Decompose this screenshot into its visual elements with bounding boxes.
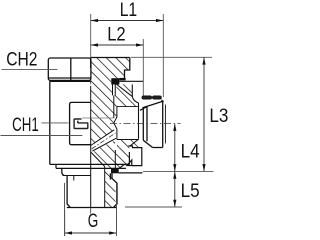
channel axis centerline bbox=[92, 133, 116, 149]
svg-text:L4: L4 bbox=[181, 142, 200, 163]
tube slot walls bbox=[113, 85, 116, 119]
svg-text:CH2: CH2 bbox=[6, 50, 37, 71]
nut CH2 bbox=[48, 58, 91, 80]
svg-text:L5: L5 bbox=[181, 181, 200, 202]
swivel nut side port bbox=[140, 101, 165, 148]
hatched body section upper block bbox=[91, 58, 130, 100]
white cavity of side port bbox=[114, 107, 138, 140]
extension line L2 right bbox=[142, 39, 144, 96]
svg-text:G: G bbox=[88, 211, 99, 232]
extension line top for L3 bbox=[131, 56, 212, 58]
svg-text:L1: L1 bbox=[120, 0, 138, 21]
bottom seal black bbox=[111, 168, 119, 173]
dimension L5 bbox=[173, 171, 176, 207]
svg-text:L2: L2 bbox=[107, 25, 126, 46]
side port cavity outline bbox=[114, 103, 139, 146]
washer under hex bbox=[56, 164, 126, 168]
black detail right of seal bbox=[119, 78, 125, 81]
svg-text:L3: L3 bbox=[209, 106, 228, 127]
brand mark spiral symbol bbox=[74, 119, 88, 129]
thread thin lines bbox=[65, 183, 117, 236]
washer inner edge line bbox=[114, 150, 116, 168]
G extension lines bbox=[64, 210, 66, 236]
hatched stud walls bbox=[105, 168, 116, 207]
dimension L1 bbox=[91, 19, 164, 22]
tube slot white bbox=[113, 85, 115, 96]
faint internal line bbox=[82, 117, 114, 119]
leader CH1 bbox=[42, 122, 69, 124]
female thread strips of side port bbox=[142, 96, 164, 102]
section boundary at centerline bbox=[90, 86, 92, 208]
dimension L4 bbox=[173, 124, 176, 172]
extension line left (from centerline) bbox=[90, 14, 92, 58]
stud profile bbox=[62, 168, 117, 207]
black seal top bbox=[111, 78, 119, 84]
dimension L3 bbox=[202, 57, 205, 171]
underline CH1 bbox=[1, 135, 83, 137]
body flange below side port bbox=[119, 146, 142, 169]
leader CH2 bbox=[2, 69, 58, 71]
hatched area below seal to boss boundary bbox=[111, 84, 138, 106]
extension line L1 right bbox=[162, 14, 164, 97]
funnel cone diagonal and boss boundary bbox=[116, 84, 139, 104]
white stud bore bbox=[91, 150, 105, 208]
stud bore wall bbox=[104, 167, 106, 208]
shoulder face lines bbox=[119, 172, 143, 174]
horizontal centerline of side port bbox=[110, 123, 181, 125]
diagonal channel edges bbox=[91, 130, 116, 167]
white thread pocket right port bbox=[126, 80, 144, 108]
body section outline upper bbox=[91, 58, 130, 79]
vertical centerline bbox=[90, 81, 92, 214]
extension line stud end for L5 bbox=[125, 206, 182, 208]
white tube slot below top seal bbox=[114, 84, 117, 94]
extension line face for L3 L4 L5 bbox=[143, 170, 214, 172]
white diagonal channel bbox=[91, 130, 117, 151]
svg-text:CH1: CH1 bbox=[12, 115, 39, 136]
hatched washer band bbox=[91, 164, 126, 168]
thread pocket outline bbox=[119, 80, 143, 82]
dimension G bbox=[65, 231, 117, 234]
dimension L2 bbox=[91, 43, 144, 46]
hex body CH1 exterior left bbox=[50, 81, 130, 164]
hatched body section mid (hex region right half) bbox=[91, 99, 142, 166]
